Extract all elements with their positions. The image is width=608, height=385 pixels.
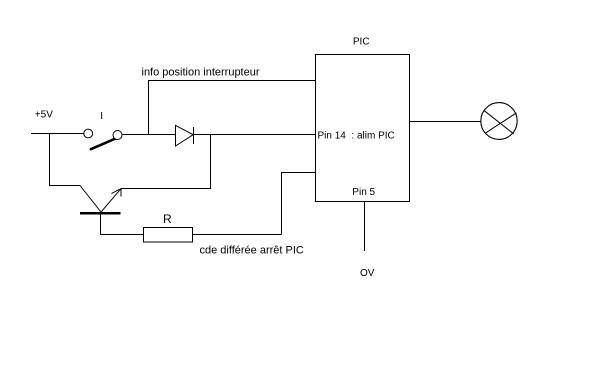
wire base drop (100, 213, 102, 235)
transistor Q1 base bar (80, 212, 121, 215)
svg-text:I: I (100, 111, 103, 122)
lamp L1 circle (481, 103, 517, 140)
lamp L1 cross chord 1 (484, 111, 513, 134)
wire riser up (281, 172, 283, 235)
svg-text:R: R (163, 212, 172, 226)
wire PIC to lamp (410, 121, 481, 123)
wire resistor to riser (193, 234, 282, 236)
wire riser to PIC left edge (281, 172, 315, 174)
wire switch to diode anode (123, 134, 176, 136)
wire base to resistor R (101, 234, 144, 236)
svg-text:OV: OV (360, 268, 375, 279)
wire +5V drop to transistor collector (49, 134, 51, 187)
svg-text:Pin 5: Pin 5 (352, 187, 375, 198)
svg-text:cde différée arrêt PIC: cde différée arrêt PIC (200, 244, 304, 256)
wire info position interrupteur to PIC (148, 80, 319, 82)
op IC U1 PIC box (316, 55, 410, 202)
diode D1 triangle (176, 125, 194, 146)
svg-text:info position interrupteur: info position interrupteur (142, 66, 260, 78)
svg-text:+5V: +5V (35, 110, 53, 121)
transistor Q1 collector wire horizontal (49, 185, 81, 187)
diode D1 cathode bar (193, 127, 195, 144)
wire +5V rail to switch (31, 133, 84, 135)
transistor Q1 emitter arrow barb diagonal (112, 189, 120, 193)
transistor Q1 collector diagonal (80, 186, 101, 212)
wire emitter horizontal (121, 188, 212, 190)
wire PIC pin 5 stub (364, 201, 366, 251)
svg-text:Pin 14 : alim PIC: Pin 14 : alim PIC (318, 131, 395, 142)
transistor Q1 emitter arrow barb vertical (120, 189, 122, 197)
wire emitter junction vertical (210, 135, 212, 189)
resistor R body (144, 228, 193, 243)
svg-text:PIC: PIC (353, 37, 370, 48)
transistor Q1 emitter diagonal (101, 189, 121, 212)
interrupteur I lever (91, 139, 115, 150)
interrupteur I contact circle left (84, 129, 93, 138)
lamp L1 cross chord 2 (486, 113, 517, 133)
node info tap vertical wire (148, 81, 150, 134)
interrupteur I contact circle right (113, 131, 122, 140)
wire diode cathode to PIC pin 14 (194, 134, 317, 136)
